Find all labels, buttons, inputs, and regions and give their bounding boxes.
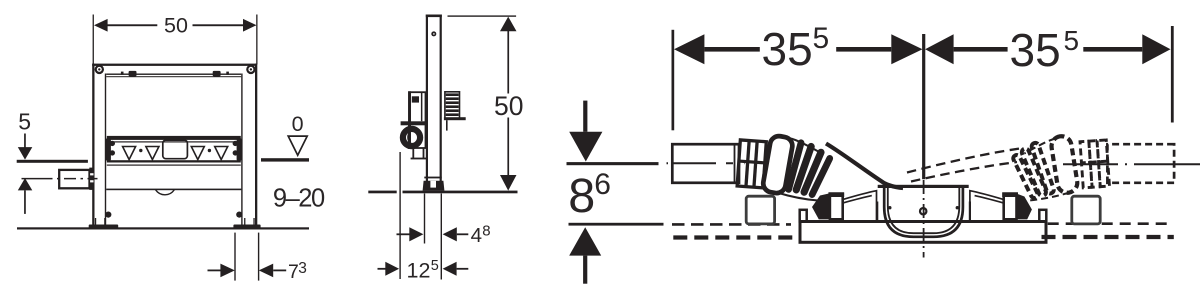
svg-text:35: 35 [762, 23, 813, 75]
svg-text:12: 12 [407, 259, 431, 283]
dim 355a arrowhead left [674, 34, 704, 64]
pipe flange [89, 168, 94, 190]
dim 125 right tail [457, 268, 469, 270]
bellow band 4 [808, 154, 835, 199]
dim 355b arrowhead right [1142, 34, 1170, 64]
leg right lower step [244, 218, 245, 225]
post foot [423, 181, 445, 191]
rail triangle 1 [123, 147, 136, 160]
bellow band 3 [799, 148, 825, 197]
post right edge [440, 15, 442, 191]
dim 50 vertical extension top [448, 15, 517, 16]
dimension 50 line left tail [107, 24, 158, 26]
dim 5 stem lower [24, 190, 26, 214]
solid pipe [672, 144, 739, 183]
dim 73 extension line right [258, 233, 259, 281]
rail dot right [208, 149, 211, 152]
clip right on top rail [213, 71, 221, 77]
dim 73 extension line left [234, 233, 235, 281]
phantom bellow [1050, 135, 1079, 194]
cup wall dot left [888, 206, 891, 209]
rail triangle 2 [146, 147, 159, 160]
dim 50 vertical line upper [507, 31, 509, 94]
svg-text:5: 5 [813, 22, 830, 55]
trap inlet slot [830, 194, 843, 220]
subfloor thick dashed line right [1042, 235, 1174, 239]
threaded block right [445, 92, 460, 119]
svg-text:5: 5 [18, 109, 31, 135]
phantom neck line lower [911, 162, 1017, 182]
pipe centerline solid-dash left [667, 162, 746, 164]
corner bolt left [96, 66, 103, 73]
bracket shelf [401, 121, 427, 125]
screed level line [17, 160, 88, 163]
bellow band 2 [792, 142, 816, 194]
dim 86 up arrowhead [569, 227, 601, 255]
frame top bar [92, 64, 257, 66]
dimension 50 extension line left [93, 15, 94, 65]
dim 48 left tail [397, 233, 410, 235]
drain base plate [800, 222, 1046, 243]
foot pad left [89, 225, 119, 229]
dim 86 lower reference line [569, 223, 664, 226]
rail center plate [163, 140, 188, 159]
post left edge [426, 15, 428, 191]
floor line main segment [403, 191, 518, 194]
base plate tab left [800, 210, 807, 222]
dim 5 stem upper [24, 134, 26, 148]
subfloor thick dashed line left [673, 235, 792, 239]
dim 355 extension line middle [922, 34, 925, 179]
dim 125 arrow left-pointing [443, 262, 457, 276]
drain cup outer [884, 187, 963, 237]
rail end clamp left [106, 138, 111, 161]
lower panel center notch [156, 190, 175, 195]
dim 73 right tail [273, 270, 286, 272]
rail top band [107, 136, 241, 140]
datum level line [261, 158, 309, 161]
rail top band underline [107, 141, 241, 142]
dim 355a left tail [704, 47, 759, 52]
lower panel top line [107, 165, 241, 166]
datum triangle [288, 136, 307, 155]
drain socket inner [408, 131, 418, 144]
dim 5 arrow down [18, 147, 33, 160]
pipe end double line [734, 146, 736, 182]
foot pad right [233, 225, 260, 229]
dimension 50 extension line right [256, 15, 257, 65]
bracket legs [412, 148, 414, 159]
svg-text:8: 8 [482, 223, 490, 240]
svg-text:50: 50 [164, 13, 188, 37]
dim 73 arrow right-pointing [220, 264, 234, 278]
svg-text:6: 6 [594, 168, 611, 201]
dim 50 arrow up [500, 17, 517, 32]
mirrored inlet right side [970, 191, 1032, 222]
base plate tab right [1039, 210, 1046, 222]
dimension 50 arrowhead right [243, 19, 257, 32]
dim 86 up arrow stem [583, 256, 587, 284]
trap neck thick curve [826, 144, 903, 189]
phantom pipe [1107, 144, 1174, 183]
gray square left [746, 196, 774, 224]
phantom neck line upper [907, 148, 1023, 173]
post foot plate line [424, 177, 441, 179]
svg-text:35: 35 [1010, 24, 1061, 76]
dim 355b right tail [1083, 47, 1142, 52]
dim 50 arrow down [500, 175, 517, 191]
svg-text:4: 4 [471, 224, 482, 247]
rail bottom edge [107, 160, 241, 162]
dim 50 vertical line lower [507, 118, 509, 176]
dim 125 arrow right-pointing [385, 262, 399, 276]
bellow band 1b [784, 139, 805, 194]
dim 355b arrowhead left [925, 34, 954, 64]
bellow bottom outline [777, 193, 818, 201]
bracket outline [409, 92, 426, 148]
dim 48 right tail [457, 233, 469, 235]
trap inlet wedge [812, 193, 830, 219]
drain cup inner [888, 188, 960, 233]
dim 48 arrow right-pointing [409, 227, 423, 241]
leg left lower step [95, 218, 96, 225]
cup bracket left [877, 202, 884, 222]
svg-text:9–20: 9–20 [273, 185, 325, 213]
support arm [444, 117, 466, 120]
dim 73 left tail [208, 270, 221, 272]
drain centerline dash-dot [923, 180, 925, 258]
frame leg right inner [241, 74, 242, 226]
dimension 50 line right tail [193, 24, 244, 26]
svg-text:50: 50 [494, 91, 523, 121]
rail end clamp right [237, 138, 242, 161]
dim 5 arrow up [18, 178, 33, 190]
dim 355a arrowhead right [891, 34, 922, 64]
svg-text:8: 8 [568, 169, 595, 223]
drain cup cap [878, 185, 969, 188]
svg-text:5: 5 [1064, 25, 1080, 56]
svg-text:0: 0 [292, 112, 304, 136]
pipe centerline right [1063, 163, 1200, 165]
dim 86 down arrowhead [569, 132, 602, 162]
dim 86 down arrow stem [583, 101, 587, 132]
bracket inner line [421, 92, 423, 121]
post bolt [431, 31, 436, 36]
cup wall dot right [956, 206, 959, 209]
phantom dashed assembly right (mirrored) [1012, 135, 1174, 201]
membrane dashed line right [1048, 222, 1173, 225]
trap rim lines left [844, 191, 877, 222]
rail dot left [139, 149, 142, 152]
svg-text:5: 5 [431, 258, 439, 274]
cup center screw [920, 208, 926, 214]
floor line left segment [368, 191, 396, 194]
floor line [17, 227, 309, 229]
post top cap [426, 15, 442, 18]
cup bracket right [963, 202, 970, 222]
dim 48 arrow left-pointing [443, 227, 457, 241]
membrane dashed line left [672, 223, 791, 226]
extension line x441 [441, 194, 442, 280]
extension line x400 [399, 152, 400, 279]
gray square right [1072, 196, 1100, 224]
corner bolt right [247, 66, 254, 73]
dim 73 arrow left-pointing [259, 264, 273, 278]
leg right knob [236, 212, 242, 218]
dim 355 extension line left [672, 30, 675, 131]
dim 355a right tail [836, 47, 891, 52]
extension line x424 [424, 194, 425, 244]
rail triangle 4 [215, 147, 228, 160]
drain socket ring [403, 129, 420, 146]
corrugated bellow ring 1 [762, 135, 794, 195]
frame leg right outer [255, 64, 257, 226]
top bar underline 1 [106, 74, 241, 75]
frame leg left inner [105, 74, 106, 226]
dim 355b left tail [954, 47, 1008, 52]
dim 86 upper reference line [567, 162, 659, 165]
dim 355 extension line right [1171, 26, 1174, 123]
top bar underline 2 [106, 76, 241, 77]
dim 125 left tail [378, 268, 386, 270]
inlet pipe left [59, 170, 89, 188]
dimension 50 arrowhead left [94, 19, 108, 32]
svg-text:3: 3 [298, 260, 307, 277]
rail triangle 3 [191, 147, 204, 160]
lower panel bottom line [106, 189, 241, 191]
pipe centerline [22, 178, 98, 180]
bellow top outline [791, 139, 822, 154]
bracket dark square [412, 96, 419, 102]
ribbed coupling [737, 140, 766, 188]
leg left knob [105, 212, 111, 218]
phantom coupling [1080, 140, 1109, 188]
clip left on top rail [129, 71, 137, 77]
frame leg left outer [92, 64, 94, 226]
